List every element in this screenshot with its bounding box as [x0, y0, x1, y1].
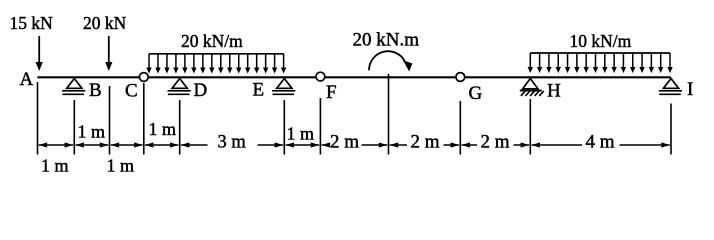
svg-text:1 m: 1 m	[41, 156, 69, 176]
svg-text:A: A	[20, 69, 34, 90]
force 15 kN at A (arrow)	[36, 36, 43, 71]
dimension H-I (4 m) arrow	[532, 142, 670, 147]
svg-text:10 kN/m: 10 kN/m	[570, 31, 632, 51]
roller support D	[168, 79, 191, 95]
svg-text:2 m: 2 m	[330, 132, 359, 153]
svg-text:20 kN: 20 kN	[83, 13, 127, 33]
force 20 kN (arrow)	[105, 36, 112, 71]
dimension C-D (1 m) arrow	[145, 142, 179, 147]
roller support E	[272, 79, 295, 95]
svg-text:I: I	[687, 79, 693, 100]
svg-text:F: F	[326, 82, 337, 103]
distributed load 20 kN/m (arrows)	[146, 54, 286, 74]
distributed load 10 kN/m (top line)	[530, 52, 670, 54]
dimension A-B (1 m) arrow	[39, 142, 73, 147]
svg-text:20 kN.m: 20 kN.m	[353, 30, 420, 51]
dimension tick at D	[179, 100, 181, 155]
dimension tick at B	[73, 100, 75, 155]
svg-text:B: B	[89, 80, 102, 101]
dimension P-C (1 m) arrow	[111, 142, 143, 147]
dimension tick at I	[670, 104, 672, 155]
roller support B	[62, 79, 85, 95]
svg-text:4 m: 4 m	[586, 132, 615, 153]
internal hinge F	[316, 72, 325, 81]
svg-text:C: C	[125, 81, 138, 102]
dimension tick at G	[459, 101, 461, 155]
svg-text:3 m: 3 m	[218, 133, 247, 153]
svg-text:1 m: 1 m	[149, 119, 177, 139]
dimension tick at E	[283, 100, 285, 155]
svg-text:D: D	[194, 80, 208, 101]
dimension B-P (1 m) arrow	[76, 142, 109, 147]
internal hinge C	[139, 73, 148, 82]
svg-text:G: G	[469, 83, 483, 104]
beam AI (main member)	[38, 76, 672, 78]
dimension tick at A	[37, 82, 39, 155]
svg-text:1 m: 1 m	[107, 156, 135, 176]
svg-text:2 m: 2 m	[411, 132, 440, 153]
dimension D-E (3 m) arrow	[181, 142, 283, 147]
dimension tick at M	[388, 74, 390, 155]
svg-text:E: E	[253, 80, 265, 101]
svg-text:2 m: 2 m	[481, 132, 510, 153]
distributed load 10 kN/m (arrows)	[528, 53, 673, 73]
svg-text:15 kN: 15 kN	[10, 13, 54, 33]
svg-text:H: H	[547, 81, 561, 102]
dimension tick at P	[109, 86, 111, 155]
dimension tick at H	[529, 99, 531, 155]
dimension M-G (2 m) arrow	[390, 142, 459, 147]
dimension tick at F	[319, 98, 321, 155]
pin support H (triangle with hatched ground)	[520, 79, 544, 96]
roller support I	[659, 79, 682, 95]
dimension G-H (2 m) arrow	[462, 142, 530, 147]
dimension E-F (1 m) arrow	[286, 142, 320, 147]
distributed load 20 kN/m (top line)	[149, 53, 284, 55]
internal hinge G	[456, 73, 465, 82]
dimension tick at C	[143, 83, 145, 155]
dimension F-M (2 m) arrow	[322, 142, 388, 147]
svg-text:20 kN/m: 20 kN/m	[181, 31, 243, 51]
moment 20 kN.m (arc with arrowhead)	[369, 51, 412, 71]
svg-text:1 m: 1 m	[78, 122, 106, 142]
svg-text:1 m: 1 m	[287, 124, 315, 144]
